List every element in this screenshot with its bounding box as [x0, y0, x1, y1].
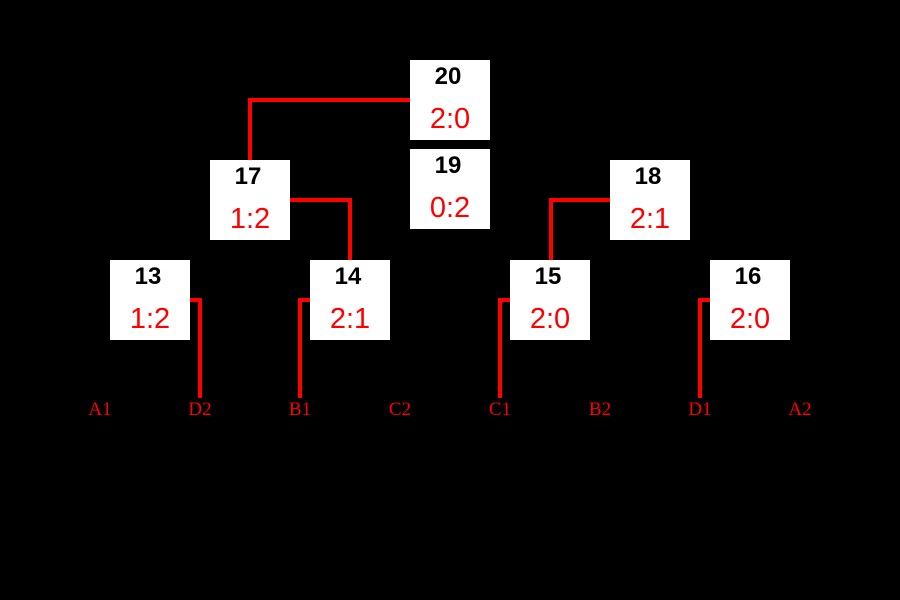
- team label B1: [270, 400, 330, 419]
- team label B2: [570, 400, 630, 419]
- wire: box 20 left to box 17 top, horizontal segment: [248, 98, 410, 102]
- wire: box 14 left to label B1, horizontal stub: [298, 298, 310, 302]
- wire: box 18 left to box 15 top, vertical segment: [549, 198, 553, 260]
- wire: box 14 left to label B1, vertical segment: [298, 298, 302, 398]
- match box 17 (semifinal left): [210, 160, 290, 240]
- wire: box 18 left to box 15 top, horizontal segment: [549, 198, 610, 202]
- match box 18 (semifinal right): [610, 160, 690, 240]
- team label A1: [70, 400, 130, 419]
- team label D1: [670, 400, 730, 419]
- team label C2: [370, 400, 430, 419]
- team label A2: [770, 400, 830, 419]
- wire: box 15 left to label C1, vertical segment: [498, 298, 502, 398]
- team label C1: [470, 400, 530, 419]
- wire: box 13 right to label D2, vertical segment: [198, 298, 202, 398]
- wire: box 17 right to box 14 top, vertical segment: [348, 198, 352, 260]
- match box 16 (quarterfinal 4): [710, 260, 790, 340]
- wire: box 15 left to label C1, horizontal stub: [498, 298, 510, 302]
- match box 19 (third place): [410, 149, 490, 229]
- wire: box 17 right to box 14 top, horizontal segment: [290, 198, 352, 202]
- match box 13 (quarterfinal 1): [110, 260, 190, 340]
- match box 14 (quarterfinal 2): [310, 260, 390, 340]
- match box 20 (final): [410, 60, 490, 140]
- wire: box 20 left to box 17 top, vertical segment: [248, 98, 252, 160]
- wire: box 13 right to label D2, horizontal stub: [190, 298, 202, 302]
- match box 15 (quarterfinal 3): [510, 260, 590, 340]
- wire: box 16 left to label D1, horizontal stub: [698, 298, 710, 302]
- team label D2: [170, 400, 230, 419]
- wire: box 16 left to label D1, vertical segment: [698, 298, 702, 398]
